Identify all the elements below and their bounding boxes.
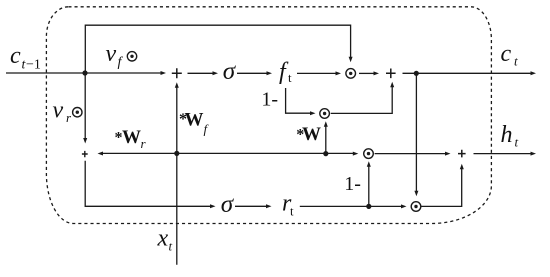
wire f_t to mul1 [297, 72, 337, 74]
svg-text:W: W [302, 124, 321, 145]
label v_r [53, 98, 73, 126]
svg-text:c: c [10, 43, 21, 69]
junction x_t h-line [174, 151, 179, 156]
svg-text:t: t [514, 54, 518, 69]
wire one-minus-2 up to mul3 [368, 166, 370, 206]
wire adder1 to sigma1 [188, 72, 215, 74]
wire h-line right to mul3 [177, 152, 354, 154]
adder3 plus [82, 151, 88, 157]
label *W_r [115, 127, 147, 151]
symbol v_r circled dot [73, 108, 82, 117]
arrowhead up into adder4 from mul4 [460, 164, 464, 170]
svg-text:f: f [118, 55, 124, 70]
arrowhead into sigma2 [210, 204, 216, 208]
symbol v_f circled dot [127, 52, 136, 61]
svg-text:W: W [122, 127, 141, 148]
wire one-minus-1 hook from f_t to mul2 [286, 88, 312, 113]
arrowhead bypass down into mul1 [349, 57, 353, 63]
svg-text:−1: −1 [26, 58, 41, 73]
junction c-line left [82, 70, 87, 75]
wire adder4 to h-out [474, 153, 533, 155]
svg-text:h: h [501, 122, 513, 148]
wire sigma2 to r_t [235, 205, 268, 207]
arrowhead into sigma1 [213, 71, 219, 75]
wire mul3 to adder4 [375, 153, 447, 155]
wire top bypass c [85, 25, 350, 73]
wire mul1 to adder2 [359, 72, 375, 74]
label *W_f [179, 110, 210, 137]
svg-text:v: v [106, 41, 117, 67]
wire adder2 to c-out [403, 72, 533, 74]
svg-text:r: r [141, 136, 147, 151]
label *W [296, 124, 321, 145]
label h_t [501, 122, 519, 150]
junction c-line right [414, 71, 419, 76]
arrowhead into mul4 [401, 204, 407, 208]
svg-text:r: r [66, 110, 72, 125]
wire c-branch down to mul4 [415, 73, 417, 191]
svg-text:x: x [157, 226, 169, 252]
wire c down-branch to adder3 [84, 73, 86, 140]
wire W up to mul2 [325, 126, 327, 154]
label r_t [282, 191, 294, 219]
wire sigma1 to f_t [237, 72, 268, 74]
mul2 circled dot [320, 109, 330, 119]
svg-text:σ: σ [223, 58, 237, 85]
label x_t [157, 226, 173, 254]
svg-text:1-: 1- [344, 173, 361, 195]
wire x_t vertical [176, 87, 178, 265]
arrowhead down into adder3 [83, 138, 87, 144]
adder4 plus [458, 150, 466, 158]
arrowhead into r_t [266, 204, 272, 208]
junction h-line W [323, 151, 328, 156]
svg-text:f: f [204, 122, 210, 137]
arrowhead into mul1 [336, 71, 342, 75]
mul3 circled dot [364, 149, 374, 159]
arrowhead c-out [531, 71, 537, 75]
wire mul2 to adder2 [331, 87, 393, 114]
svg-text:t: t [169, 239, 173, 254]
arrowhead up into mul2 (W) [324, 121, 328, 127]
svg-text:W: W [185, 110, 204, 131]
cell boundary (dashed rounded rect) [46, 7, 491, 224]
arrowhead into f_t [267, 71, 273, 75]
svg-text:t: t [290, 204, 294, 219]
arrowhead h-out [531, 152, 537, 156]
arrowhead left into adder3 [98, 152, 104, 156]
wire h-line left to adder3 [103, 152, 177, 154]
mul4 circled dot [411, 202, 421, 212]
svg-text:1-: 1- [261, 89, 278, 111]
wire mul4 to adder4 [421, 168, 461, 206]
wire adder3 down to sigma2 [85, 161, 211, 207]
adder2 plus [386, 69, 396, 79]
wire r_t to mul4 [300, 205, 403, 207]
wire c-in [6, 72, 162, 74]
arrowhead into adder1 [161, 71, 167, 75]
svg-text:t: t [288, 70, 292, 85]
label c_{t-1} [10, 43, 41, 73]
arrowhead mul2 up into adder2 [390, 82, 394, 88]
arrowhead into mul2 (1-) [310, 111, 316, 115]
arrowhead mul1 to adder2 [374, 71, 380, 75]
svg-text:v: v [53, 98, 64, 124]
arrowhead x_t up into adder1 [175, 82, 179, 88]
adder1 plus [172, 68, 182, 78]
svg-text:c: c [501, 41, 512, 67]
arrowhead mul3 to adder4 [445, 152, 451, 156]
arrowhead into mul3 [353, 152, 359, 156]
label c_t [501, 41, 519, 69]
svg-text:t: t [515, 135, 519, 150]
label f_t [279, 59, 292, 85]
arrowhead up into mul3 (1-) [367, 161, 371, 167]
mul1 circled dot [346, 69, 356, 79]
arrowhead c-branch down into mul4 [414, 191, 418, 197]
junction r-line [366, 204, 371, 209]
svg-text:σ: σ [221, 191, 235, 218]
label v_f [106, 41, 124, 70]
